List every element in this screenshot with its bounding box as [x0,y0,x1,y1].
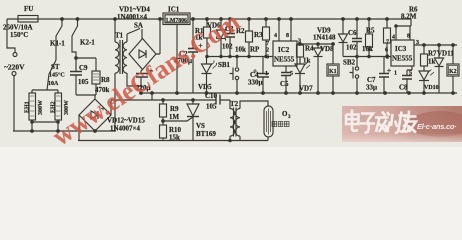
svg-text:VS: VS [196,122,205,130]
transformer T1 [114,18,127,131]
resistor R9 [160,99,167,125]
svg-text:RP: RP [250,46,260,54]
svg-text:1: 1 [265,71,268,77]
wire IC2 pin3 row [297,43,333,46]
node gnd 318 [317,92,320,95]
wire IC2 pin8 stub [290,18,293,41]
svg-text:IC2: IC2 [278,46,290,54]
diode VD6 zener [217,18,226,57]
wire T2 secondary to ozone tube [240,101,268,141]
svg-text:EH1: EH1 [25,101,31,113]
capacitor C3 [225,18,235,57]
resistor R5 [366,18,373,57]
IC timer U IC2 NE555 [273,41,297,66]
watermark banner glyph fa [375,112,390,133]
capacitor C8 [402,66,412,93]
svg-text:~220V: ~220V [4,63,25,72]
watermark banner glyph dian [346,110,359,132]
svg-text:1N4148: 1N4148 [313,34,336,42]
node gnd 141 [140,92,143,95]
wire C9 R8 top [76,56,96,71]
svg-text:105: 105 [78,78,89,86]
node gnd 409 [408,92,411,95]
capacitor C1 470u [136,69,153,94]
wire bridge2 plus to pulse rail [111,100,216,115]
node gnd 286 [285,92,288,95]
svg-text:33µ: 33µ [366,84,377,92]
svg-text:NE555: NE555 [392,55,413,63]
svg-text:4: 4 [274,33,277,39]
svg-text:IC3: IC3 [395,45,407,53]
node gnd 333 [332,92,335,95]
node gnd 357 [356,92,359,95]
capacitor C4 [253,57,269,94]
svg-text:1N4001×4: 1N4001×4 [117,13,148,21]
diode VD8 [314,44,323,93]
svg-text:K1-1: K1-1 [50,40,65,48]
svg-text:NE555: NE555 [274,56,295,64]
heater EH2 [55,93,62,131]
LED VD5 [202,57,217,94]
resistor R8 [92,71,100,95]
wire bridge1 to IC1 [156,18,161,54]
wire EH bottom link [31,121,59,123]
relay K2 [447,44,459,93]
node gnd 385 [384,92,387,95]
svg-text:El·c·ans.co·: El·c·ans.co· [417,122,456,131]
pushbutton SB1 [230,57,239,94]
capacitor C10 [216,95,230,110]
svg-text:8: 8 [407,34,410,40]
capacitor C2 [188,18,203,93]
terminal upper ~220V [13,53,17,57]
resistor R2 [246,18,253,57]
svg-text:BT169: BT169 [196,130,216,138]
capacitor C6 [352,18,362,57]
node K2-C9 [75,57,78,60]
svg-text:10A: 10A [48,81,59,87]
node gnd 237 [236,92,239,95]
node gnd 300 [299,92,302,95]
svg-text:300W: 300W [38,100,44,115]
svg-text:C10: C10 [205,92,218,100]
svg-text:2: 2 [386,55,389,61]
svg-text:8: 8 [286,33,289,39]
svg-text:LM7806: LM7806 [166,18,187,24]
relay K1 [327,43,339,93]
svg-text:C6: C6 [348,29,357,37]
label chouyangguan glyphs [272,122,289,127]
wire N down to bottom rail [13,76,15,131]
svg-text:VD11: VD11 [437,50,454,58]
svg-text:VD7: VD7 [299,85,313,93]
wire N bottom rail A [13,130,116,132]
wire rail end drop and pin jumper [395,19,411,40]
svg-text:ST: ST [51,63,60,71]
watermark banner glyph zi [360,114,375,133]
svg-text:SB1: SB1 [218,61,231,69]
thermostat ST [47,60,56,90]
svg-text:6: 6 [385,48,388,54]
LED VD10 [419,70,434,94]
svg-text:1M: 1M [169,113,180,121]
svg-text:VD8: VD8 [320,45,334,53]
svg-text:K2-1: K2-1 [80,39,95,47]
rectifier bridge VD1-VD4 [129,39,156,70]
wire gnd to pulse rail link [151,92,154,100]
watermark banner glyph shao [388,112,409,133]
svg-text:SB2: SB2 [343,59,356,67]
switch K1-1 [56,18,63,60]
transformer T2 [229,108,240,142]
svg-text:16k: 16k [362,45,373,53]
node gnd 177 [176,92,179,95]
IC timer U IC3 NE555 [391,40,414,66]
svg-text:SA: SA [134,22,143,30]
svg-text:K1: K1 [329,69,337,75]
switch K2-1 [72,18,79,56]
svg-text:R8: R8 [101,76,110,84]
node gnd 424 [423,92,426,95]
resistor R4 [297,44,304,64]
svg-text:150°C: 150°C [10,31,28,39]
svg-text:R5: R5 [366,27,375,35]
svg-text:IC1: IC1 [168,6,180,14]
capacitor C7 [379,57,391,94]
svg-text:10k: 10k [235,46,246,54]
svg-text:FU: FU [24,5,33,13]
svg-text:C5: C5 [280,80,289,88]
node gnd 206 [205,92,208,95]
pushbutton SB2 [350,57,359,94]
wire node row right y52 [343,55,391,57]
wire IC3 pin3 row [414,44,457,47]
node EH2 rail A [57,130,60,133]
wire T1 secondary bottom [127,73,141,86]
wire bottom rail B [78,140,268,142]
wire IC2 pin4 stub [278,18,281,41]
fuse FU [18,16,38,23]
capacitor C5 [281,66,291,93]
resistor R3 [263,18,270,57]
resistor R6 [384,18,391,57]
rectifier bridge VD12-VD15 [79,99,111,131]
svg-text:VD5: VD5 [198,83,212,91]
svg-text:8.2M: 8.2M [401,13,417,21]
svg-text:1N4007×4: 1N4007×4 [110,125,141,133]
wire IC1 gnd pin [176,25,178,94]
resistor R7 [421,45,428,71]
svg-text:6: 6 [266,55,269,61]
svg-text:C8: C8 [399,84,408,92]
svg-text:T2: T2 [230,100,239,108]
node gnd 453 [452,92,455,95]
svg-text:145°C: 145°C [49,72,65,79]
capacitor C9 [70,72,82,96]
node gnd 263 [262,92,265,95]
svg-text:1: 1 [394,71,397,77]
svg-text:EH2: EH2 [51,101,57,113]
terminal lower ~220V [12,72,16,76]
svg-text:105: 105 [206,103,217,111]
svg-text:C9: C9 [79,64,88,72]
thyristor VS BT169 [187,99,199,141]
svg-text:7: 7 [266,41,269,47]
node bridge2 rail A [94,130,97,133]
LED VD7 [295,63,310,94]
switch SA [127,29,142,43]
svg-text:K2: K2 [449,69,457,75]
wire node row y52 [206,55,273,57]
svg-text:2: 2 [266,48,269,54]
wire drop rail A to rail B [78,115,80,141]
svg-text:3: 3 [288,115,291,120]
svg-text:VD10: VD10 [424,85,439,91]
IC regulator U IC1 LM7806 [163,13,190,25]
svg-text:7: 7 [386,40,389,46]
svg-text:15k: 15k [169,134,180,142]
resistor R1 [204,18,211,57]
ozone tube O3 [264,106,273,137]
wire C9R8 bottom link [76,95,96,99]
wire gate R9R10 junction [162,117,193,122]
svg-text:R4: R4 [305,45,314,53]
resistor R10 [160,125,167,141]
svg-text:R9: R9 [170,105,179,113]
svg-text:102: 102 [346,44,357,52]
wire L mains top rail [7,18,411,20]
watermark banner glyph you [403,111,417,133]
wire ground rail [141,92,457,94]
svg-text:T1: T1 [115,32,124,40]
svg-text:330µ: 330µ [248,79,263,87]
diode VD9 [339,18,348,57]
wire EH feed [32,90,58,93]
diode VD11 [435,45,444,93]
heater EH1 [29,93,36,131]
svg-text:R7: R7 [428,50,437,58]
wire left drop to terminal [7,19,15,52]
svg-text:R3: R3 [254,31,263,39]
node EH1 rail A [31,130,34,133]
